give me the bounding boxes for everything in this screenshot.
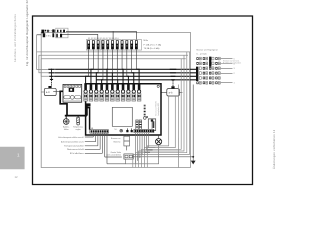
flow temperature sensor — [77, 117, 80, 122]
LCD display — [112, 107, 132, 126]
wire fuse F3 drop — [97, 49, 99, 73]
controller bottom band — [64, 100, 81, 102]
svg-text:Änderungen vorbehalten 12: Änderungen vorbehalten 12 — [272, 129, 276, 169]
wire fuse F8 drop — [121, 49, 123, 69]
fuse F1 — [87, 40, 90, 49]
connector grid X3 pin row 3 — [209, 67, 211, 70]
bold wire controller to main box — [60, 91, 87, 115]
bold wire into terminal strip — [86, 108, 90, 130]
connector cap left — [48, 86, 51, 88]
mains plug pin N — [45, 30, 47, 32]
connector on main box edge — [86, 103, 91, 106]
fuse F7 — [116, 40, 119, 49]
connector X1 tall pin — [196, 67, 198, 81]
wire fuse F6 drop — [112, 49, 114, 73]
fuse group outline G1 — [86, 40, 101, 51]
junction tap bars right — [170, 69, 177, 80]
svg-text:Fig. 12 Anschlussplan Regelger: Fig. 12 Anschlussplan Regelgerät Logamat… — [25, 0, 29, 66]
fuse F11 — [135, 40, 138, 49]
svg-text:F1 F2 F3 F4 F5 F6 F7: F1 F2 F3 F4 F5 F6 F7 F8 F9 F10 — [88, 38, 119, 40]
fuse F9 — [125, 40, 128, 49]
svg-text:12: 12 — [14, 175, 18, 179]
earth terminal — [120, 129, 123, 132]
wire from terminal strip pin 2 — [95, 133, 97, 142]
controller knob left — [64, 96, 70, 99]
wire strip pin 6 run — [105, 156, 122, 158]
terminal column 6 on controller — [111, 83, 114, 90]
fuse F4 — [102, 40, 105, 49]
power bus line 4 — [96, 79, 196, 81]
controller knob right — [75, 96, 81, 99]
wire right-side run 5 — [136, 52, 187, 167]
small relay circle — [143, 117, 146, 120]
svg-text:Fühler: Fühler — [70, 152, 85, 155]
mains plug pin row 2a — [43, 33, 46, 37]
wire run ending at box bottom — [177, 85, 179, 168]
wire bus tap to terminal 8 — [121, 69, 124, 84]
fuse F10 — [130, 40, 133, 49]
junction tap bars left — [48, 69, 55, 79]
svg-text:X... pO1(4): X... pO1(4) — [196, 54, 206, 56]
wire left riser — [37, 35, 48, 70]
terminal column 5 on controller — [106, 83, 109, 90]
svg-text:Brenner an: Brenner an — [111, 137, 120, 140]
wire fuse F5 drop — [107, 49, 109, 69]
connector bar B — [139, 120, 141, 131]
wire bus tap to terminal 5 — [106, 69, 109, 84]
terminal column 3 on controller — [95, 83, 98, 90]
terminal column 10 on controller — [132, 83, 135, 90]
wire bus tap to terminal 11 — [136, 69, 139, 84]
arrow to heat source — [191, 161, 196, 165]
connector grid X3 pin row 5 — [209, 77, 211, 80]
connector grid X4 pin row 2 — [215, 62, 217, 65]
connector grid X2 pin row 5 — [203, 77, 205, 80]
mains supply plug group outline — [56, 28, 68, 38]
A1 A2 connector — [126, 130, 128, 132]
connector grid leader 3 — [221, 67, 233, 69]
wire to flow sensor — [77, 116, 79, 118]
pump symbol — [158, 135, 160, 139]
mains plug pin L — [41, 30, 44, 34]
connector grid X2 pin row 1 — [203, 57, 205, 60]
wire right-side run 4 — [139, 55, 184, 167]
connector grid X2 pin row 3 — [203, 67, 205, 70]
wire bus tap to terminal 6 — [111, 73, 113, 84]
terminal column 1 on controller — [84, 83, 87, 90]
fuse F6 — [111, 40, 114, 49]
mains plug pins row1 extra — [47, 30, 48, 33]
svg-text:Temperaturwähler: Temperaturwähler — [64, 145, 84, 148]
drawing frame — [32, 16, 252, 185]
connector grid X2 pin row 6 — [203, 81, 205, 84]
svg-text:Klemme: Klemme — [113, 142, 120, 144]
controller display icon — [69, 88, 74, 92]
wire mains left feed — [37, 34, 42, 36]
connector grid X3 pin row 6 — [209, 81, 211, 84]
connector grid leader 1 — [221, 82, 233, 84]
wire bus tap to terminal 10 — [132, 73, 134, 84]
power bus line 1 — [55, 68, 196, 70]
fuse F5 — [106, 40, 109, 49]
wire from terminal strip pin 3 — [97, 133, 99, 146]
power bus line 2 — [55, 72, 197, 74]
connector grid X4 pin row 1 — [215, 57, 217, 60]
wire mains to fuse row lower — [62, 34, 98, 40]
terminal column 8 on controller — [122, 83, 125, 90]
plug housing — [148, 119, 155, 131]
controller tick 3 — [70, 85, 72, 87]
wire fuse F4 drop — [102, 49, 104, 80]
wire from terminal strip pin 4 — [99, 133, 101, 149]
svg-text:Netzmodul NM482: Netzmodul NM482 — [155, 101, 158, 116]
wires from right terminal strip — [134, 133, 136, 164]
svg-text:Außentemperaturfühler anschl.: Außentemperaturfühler anschl. — [61, 140, 84, 143]
bus line N (grey, wraps left) — [39, 55, 188, 73]
controller tick 6 — [79, 85, 81, 87]
fuse group outline G2 — [102, 40, 121, 51]
wire strip pin 7 run — [107, 163, 125, 165]
terminal column 9 on controller — [127, 83, 130, 90]
svg-text:F 14A (7,5 x 7 dA): F 14A (7,5 x 7 dA) — [144, 43, 162, 46]
auxiliary relay box — [124, 136, 130, 146]
terminal column 4 on controller — [100, 83, 103, 90]
control cabinet boundary — [41, 32, 190, 167]
wire terminal box left stub — [41, 91, 44, 93]
pin header column — [144, 105, 146, 106]
svg-text:Stecker am Regelgerät: Stecker am Regelgerät — [196, 48, 218, 51]
wire fuse F10 drop — [131, 49, 133, 73]
controller tick 5 — [76, 85, 78, 87]
connector grid X4 pin row 6 — [215, 81, 217, 84]
wire bus tap to terminal 1 — [86, 76, 89, 84]
connector grid X1 pin row 6 — [197, 81, 199, 84]
svg-text:1: 1 — [17, 153, 20, 158]
connector bar A — [136, 120, 138, 131]
wire bus tap to terminal 4 — [102, 80, 103, 84]
fuse F3 — [97, 40, 100, 49]
connector X3 tall pin — [209, 57, 211, 67]
terminal column 11 on controller — [138, 83, 141, 90]
wire from terminal strip pin 1 — [92, 133, 94, 137]
controller tick 1 — [64, 85, 66, 87]
main controller housing U1 — [86, 84, 161, 135]
wire mains branch — [112, 31, 114, 40]
wire terminal box right left-stub — [161, 91, 167, 93]
fuse F8 — [121, 40, 124, 49]
wire fuse F9 drop — [126, 49, 128, 76]
fuse group outline G3 — [122, 40, 141, 51]
wire right-side run 1 — [147, 96, 168, 167]
junction drop (dashed) right — [172, 80, 174, 86]
wire fuse F1 drop — [88, 49, 90, 76]
controller tick 4 — [73, 85, 75, 87]
svg-text:regler: regler — [76, 128, 81, 131]
terminal box left — [44, 88, 56, 95]
connector grid leader 5 — [221, 58, 233, 60]
wire mains to fuse row upper — [66, 31, 136, 40]
wire from terminal strip pin 6 — [104, 133, 106, 157]
wire bus tap to terminal 7 — [116, 80, 118, 84]
wire plug box to arrow — [133, 156, 193, 158]
connector grid X4 pin row 5 — [215, 77, 217, 80]
svg-text:T6,3A (5 x 4 dA): T6,3A (5 x 4 dA) — [144, 47, 160, 50]
terminal column 2 on controller — [90, 83, 93, 90]
bus line L (grey, wraps left) — [41, 59, 186, 77]
connector grid X2 pin row 2 — [203, 62, 205, 65]
outdoor sensor (fan symbol) — [63, 119, 69, 125]
wire right-side run 3 — [141, 59, 181, 167]
housing corner marker — [157, 85, 159, 87]
connector grid X3 pin row 4 — [209, 72, 211, 75]
svg-text:# N L: # N L — [46, 36, 52, 38]
wire from terminal strip pin 5 — [101, 133, 103, 153]
junction drop (dashed) left — [51, 80, 53, 86]
svg-text:Anschluss- und Verdrahtungssch: Anschluss- und Verdrahtungsschema — [14, 14, 17, 62]
wire to heat source with junction — [192, 85, 194, 161]
wire to outdoor sensor — [65, 116, 67, 119]
svg-text:fühler: fühler — [64, 128, 69, 131]
connector grid X4 pin row 4 — [215, 72, 217, 75]
junction stem left — [51, 69, 53, 81]
mains plug pin row 2b — [52, 33, 54, 37]
power bus line 3 — [54, 75, 196, 77]
connector grid leader 4 — [221, 63, 233, 65]
connector grid X1 pin row 2 — [197, 62, 199, 65]
wire bus tap to terminal 2 — [91, 69, 93, 84]
section tab — [0, 147, 25, 169]
room controller unit — [63, 84, 82, 102]
wire from terminal strip pin 7 — [106, 133, 108, 164]
svg-text:nicht anschließen: nicht anschließen — [106, 154, 121, 157]
wire fuse F7 drop — [116, 49, 118, 80]
burner plug box S1 — [124, 154, 133, 159]
wire terminal box right right-stub — [179, 91, 182, 93]
wire right-side run 2 — [144, 96, 175, 167]
wire bus tap to terminal 3 — [96, 73, 98, 84]
terminal strip right — [134, 129, 154, 132]
connector grid leader 2 — [221, 72, 233, 74]
controller tick 2 — [67, 85, 69, 87]
svg-text:N L: N L — [114, 129, 117, 131]
mains plug pin row 2d — [60, 34, 62, 38]
wire bus tap to terminal 9 — [127, 76, 129, 84]
wire fuse F2 drop — [92, 49, 94, 69]
connector grid X4 pin row 3 — [215, 67, 217, 70]
svg-text:Vorlauftemperaturfühler anschl: Vorlauftemperaturfühler anschl. — [58, 136, 84, 139]
connector cap right — [171, 86, 174, 88]
connector grid X2 pin row 4 — [203, 72, 205, 75]
fuse F2 — [92, 40, 95, 49]
terminal strip left — [90, 130, 109, 133]
wire right-side run 6 — [133, 52, 190, 167]
svg-text:Netzanschluß: Netzanschluß — [67, 148, 85, 151]
terminal box right — [167, 89, 180, 96]
terminal column 7 on controller — [116, 83, 119, 90]
bus line PE (grey, wraps left) — [37, 51, 191, 53]
mains plug pin row 2c — [56, 34, 58, 38]
connector grid X1 pin row 1 — [197, 57, 199, 60]
controller central dial — [70, 95, 74, 99]
wire terminal box right stub — [53, 90, 60, 92]
svg-text:Ausführung vorhanden: Ausführung vorhanden — [223, 62, 241, 65]
wire fuse F11 drop — [135, 49, 137, 69]
